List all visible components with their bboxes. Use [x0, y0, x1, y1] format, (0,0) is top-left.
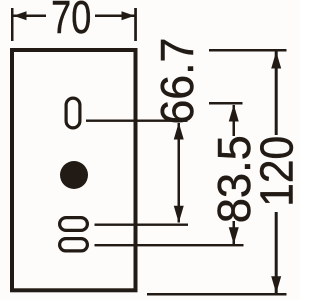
svg-text:120: 120 [252, 136, 300, 207]
svg-text:66.7: 66.7 [151, 38, 203, 125]
svg-text:70: 70 [51, 0, 91, 43]
